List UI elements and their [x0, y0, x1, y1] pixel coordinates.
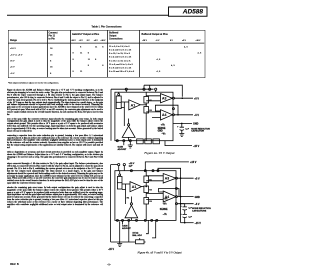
- pin circle top 2: [144, 170, 146, 172]
- zener D1: [116, 96, 121, 109]
- svg-text:+5 V: +5 V: [195, 177, 200, 180]
- terminal circle Vs1: [118, 164, 120, 166]
- pin circle top b: [149, 88, 151, 90]
- resistor ladder wire: [145, 92, 147, 141]
- pin circle bot 7: [156, 219, 158, 221]
- svg-text:GND: GND: [193, 123, 199, 126]
- pin circle top 3: [152, 170, 154, 172]
- svg-text:+: +: [180, 205, 182, 208]
- wire +Vs top: [145, 162, 189, 171]
- wire inner vertical: [123, 108, 125, 127]
- pin circle top a: [143, 88, 145, 90]
- footer page number: [107, 263, 111, 266]
- chip outline U1: [115, 92, 173, 141]
- figure 4b svg: [106, 158, 213, 258]
- footer REV: [10, 263, 19, 266]
- table footnote: [8, 82, 59, 84]
- node ladder dot: [146, 186, 147, 187]
- svg-text:A3: A3: [165, 177, 169, 181]
- pot wiper: [139, 238, 141, 240]
- resistor R2: [144, 107, 149, 114]
- capacitor C1: [180, 123, 184, 133]
- strap rect bottom 3: [153, 139, 160, 144]
- wire -5V output: [177, 203, 193, 205]
- svg-text:GND: GND: [195, 196, 201, 199]
- zener mark: [117, 182, 122, 184]
- pin circle bot 4: [136, 219, 138, 221]
- capacitor C2: [183, 212, 187, 219]
- table frame: [8, 30, 205, 78]
- op-amp A4: [163, 191, 176, 202]
- table column line 2: [69, 30, 72, 77]
- wire top bus: [111, 88, 154, 90]
- svg-text:R3: R3: [149, 201, 151, 203]
- wire A3 output: [177, 177, 193, 179]
- node A2 top circle: [128, 124, 130, 126]
- svg-text:–5 V: –5 V: [195, 203, 200, 206]
- svg-text:CAPACITORS: CAPACITORS: [192, 209, 207, 212]
- svg-text:+VS: +VS: [163, 203, 167, 205]
- pin circle bot 3: [129, 140, 131, 142]
- pin circle A3 out: [172, 97, 174, 99]
- table data: gain values: [80, 45, 81, 48]
- wire A4 output: [177, 196, 193, 198]
- table header separator: [8, 42, 204, 45]
- wire zener to A1: [122, 184, 130, 190]
- wire left outer: [110, 89, 112, 141]
- wire A1 out: [142, 186, 147, 188]
- svg-text:R4: R4: [127, 197, 130, 200]
- table data: range column: [10, 45, 22, 76]
- pin circle bot 5: [144, 219, 146, 221]
- table title: [0, 25, 213, 28]
- node A2 top circle: [130, 203, 132, 205]
- svg-text:A3: A3: [162, 97, 166, 101]
- op-amp A3: [161, 94, 173, 103]
- pin circle A4 fb: [172, 108, 174, 110]
- pin circle gnd: [175, 203, 177, 205]
- terminal circle Vs2: [123, 164, 125, 166]
- node A4 out dot: [177, 114, 179, 116]
- node -5V dot: [180, 203, 182, 205]
- wire A1 out: [140, 104, 146, 106]
- svg-text:–VS: –VS: [162, 134, 166, 136]
- svg-text:+: +: [177, 125, 179, 128]
- table data: buffered output values: [184, 45, 188, 48]
- ground bottom left: [117, 221, 122, 246]
- wire zener to A1: [121, 102, 129, 108]
- table column line 1: [46, 30, 49, 77]
- resistor ladder wire: [145, 171, 147, 221]
- pin circle bot 2: [122, 219, 124, 221]
- pin circle bot 1: [116, 219, 118, 221]
- wire ladder to A3 inputs: [146, 96, 160, 101]
- strap rect bottom 1: [137, 139, 144, 144]
- part number text: [168, 7, 203, 15]
- pin circle top c: [155, 88, 157, 90]
- table column line 3: [106, 30, 109, 77]
- wire -Vs: [165, 141, 192, 146]
- pin circle top 1: [130, 170, 132, 172]
- capacitor C1: [183, 204, 187, 213]
- header rule: [7, 15, 169, 16]
- svg-text:GND: GND: [158, 130, 163, 132]
- wire A3 feedback: [158, 168, 181, 178]
- wire terminals: [111, 165, 125, 171]
- op-amp A1: [130, 182, 142, 192]
- wire A2 base: [128, 137, 130, 140]
- wire A2 base: [130, 218, 132, 221]
- wire inner vertical: [125, 190, 127, 205]
- svg-text:ADJUST: ADJUST: [122, 227, 131, 230]
- wire below box right: [146, 220, 156, 238]
- chip outline U1: [115, 171, 176, 221]
- resistor R2: [144, 186, 149, 193]
- wire -Vs bottom: [181, 222, 194, 224]
- wire zener top: [118, 92, 120, 93]
- resistor R1: [144, 97, 149, 104]
- svg-text:1µF: 1µF: [185, 128, 189, 130]
- zener internal mark: [116, 101, 121, 103]
- svg-text:+VS: +VS: [164, 199, 168, 201]
- figure 4a svg: [106, 82, 213, 160]
- svg-text:10 kΩ: 10 kΩ: [132, 232, 138, 235]
- wire A2 up: [128, 119, 130, 124]
- svg-text:CAPACITOR: CAPACITOR: [191, 130, 204, 133]
- pin circle bot 2: [123, 140, 125, 142]
- op-amp A2 ground sense: [122, 126, 135, 137]
- svg-text:R2: R2: [149, 190, 151, 192]
- potentiometer R5: [136, 240, 145, 244]
- wire A2 up: [130, 197, 132, 203]
- node pin2 top: [125, 88, 127, 90]
- svg-text:+VS: +VS: [161, 125, 165, 127]
- svg-text:–VS: –VS: [163, 214, 167, 216]
- zener pin circle: [119, 174, 121, 176]
- zener D1: [117, 177, 122, 190]
- zener pin circle: [118, 94, 120, 96]
- wire gain adjust drop: [123, 142, 125, 146]
- wire zener top: [119, 171, 121, 174]
- table data: pin column: [50, 45, 52, 76]
- wire A4 output: [174, 114, 193, 116]
- svg-text:A1: A1: [131, 103, 136, 107]
- svg-text:–15 V: –15 V: [195, 222, 202, 225]
- wire gnd out: [173, 122, 192, 124]
- wire feedback stubs: [144, 85, 156, 92]
- wire ladder to A4 inputs: [146, 112, 160, 118]
- svg-text:A1: A1: [132, 185, 137, 189]
- svg-text:BAL ADJ: BAL ADJ: [132, 234, 142, 237]
- resistor R3: [144, 198, 149, 205]
- op-amp A4: [161, 110, 173, 120]
- ground bottom: [128, 142, 133, 148]
- svg-text:A4: A4: [162, 113, 166, 117]
- table header text: [10, 39, 17, 42]
- op-amp A2 ground sense: [125, 205, 138, 218]
- svg-text:+: +: [180, 213, 182, 216]
- table column line 4: [138, 30, 141, 77]
- pin circle top 4: [157, 170, 159, 172]
- caption 4b: [106, 251, 213, 254]
- caption 4a: [106, 152, 213, 155]
- pin circle bot 1: [116, 140, 118, 142]
- left column body text: [7, 89, 103, 208]
- node A3 dot: [180, 177, 182, 179]
- svg-text:1µF: 1µF: [129, 165, 133, 167]
- svg-text:–5 V: –5 V: [194, 114, 199, 117]
- wire C2 to -Vs: [184, 220, 186, 223]
- wire pot bus: [111, 241, 146, 243]
- pin circle bot 6: [151, 219, 153, 221]
- pin circle A4 out: [172, 114, 174, 116]
- svg-text:1µF: 1µF: [188, 217, 192, 219]
- node A3 out dot: [182, 97, 184, 99]
- pin circle bot 3: [128, 219, 130, 221]
- wire ladder to A3: [146, 176, 163, 181]
- svg-text:+15 V: +15 V: [190, 161, 197, 164]
- wire left outer: [110, 165, 112, 242]
- node A1 out junction: [146, 104, 147, 105]
- pin circle A4 fb: [175, 188, 177, 190]
- wire pin2 drop: [125, 90, 127, 92]
- ground C1: [179, 134, 184, 137]
- node -Vs dot: [184, 222, 186, 224]
- wire feedback top: [144, 85, 182, 97]
- node gnd dot: [181, 123, 183, 125]
- wire cap tap: [181, 203, 185, 205]
- pin circle A3 out: [175, 177, 177, 179]
- part number box AD588: [168, 7, 208, 17]
- svg-text:–15 V: –15 V: [193, 145, 200, 148]
- svg-text:+5 V: +5 V: [194, 97, 199, 100]
- wire A4 feedback: [159, 189, 180, 197]
- wire ladder to A4: [146, 193, 163, 199]
- wire A4 feedback: [155, 105, 178, 115]
- wire A3 output: [174, 97, 193, 99]
- op-amp A1: [129, 100, 141, 110]
- node A4 dot: [180, 196, 182, 198]
- strap rect bottom 2: [145, 139, 152, 144]
- op-amp A3: [163, 174, 176, 184]
- wire gain pot: [123, 221, 129, 242]
- wire supply vertical: [180, 178, 182, 223]
- table data: buffered connections: [109, 45, 134, 74]
- svg-text:SENSE: SENSE: [160, 209, 168, 211]
- resistor R1: [144, 176, 149, 183]
- pin circle A4 out: [175, 196, 177, 198]
